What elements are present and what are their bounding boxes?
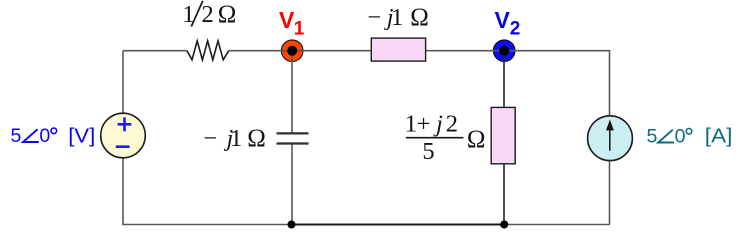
svg-text:5: 5	[11, 125, 22, 147]
svg-text:Ω: Ω	[410, 4, 429, 31]
svg-text:1: 1	[405, 110, 417, 137]
svg-text:2: 2	[202, 1, 214, 28]
svg-text:Ω: Ω	[467, 126, 486, 153]
svg-text:1: 1	[230, 125, 242, 152]
svg-text:V: V	[279, 7, 295, 33]
svg-text:2: 2	[446, 110, 458, 137]
svg-text:5: 5	[422, 138, 434, 165]
svg-text:−: −	[368, 4, 382, 31]
svg-text:V: V	[495, 7, 511, 33]
svg-text:[V]: [V]	[68, 125, 95, 148]
svg-text:−: −	[204, 125, 218, 152]
svg-text:0: 0	[39, 125, 50, 147]
svg-text:0: 0	[675, 126, 686, 148]
svg-text:5: 5	[647, 126, 658, 148]
svg-text:[A]: [A]	[705, 125, 733, 148]
svg-text:Ω: Ω	[218, 1, 237, 28]
svg-text:+: +	[417, 110, 431, 137]
svg-text:2: 2	[510, 19, 521, 40]
svg-text:1: 1	[294, 19, 305, 40]
svg-text:1: 1	[391, 4, 403, 31]
svg-text:Ω: Ω	[247, 125, 266, 152]
